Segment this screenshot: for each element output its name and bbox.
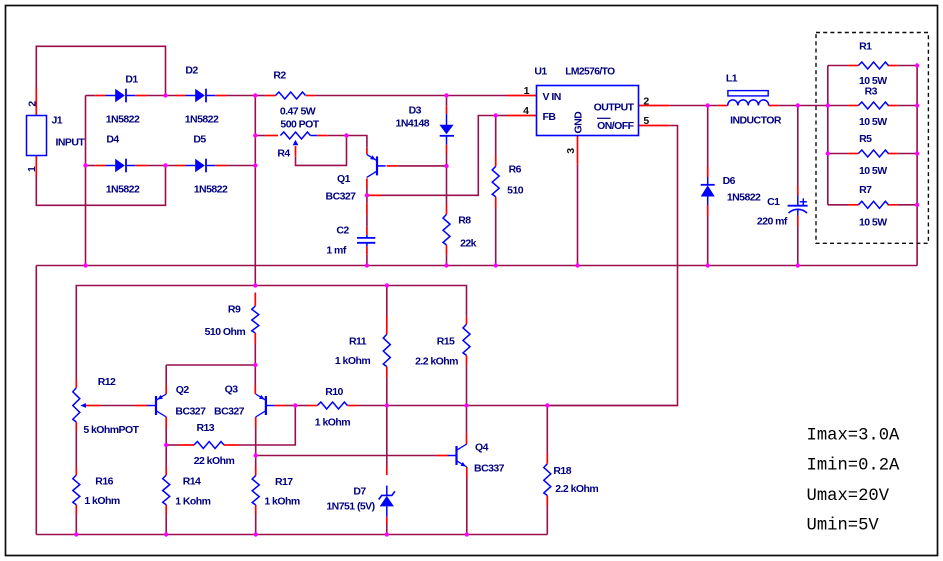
- svg-text:Umin=5V: Umin=5V: [807, 517, 880, 536]
- diode D6 1N5822: [707, 177, 709, 185]
- diode D2 1N5822: [186, 95, 196, 97]
- resistor R7 10 5W: [858, 201, 888, 208]
- transistor Q3 BC327: [265, 396, 267, 415]
- svg-text:1N5822: 1N5822: [106, 114, 140, 126]
- wire J1 pin2 top loop to bridge D1-D2 node: [36, 46, 165, 95]
- wire J1 pin1 bottom loop to bridge D4-D5 node: [36, 166, 165, 206]
- wire control rail R10-R11-R15-R18: [295, 405, 307, 407]
- wire D7 to bottom rail: [386, 517, 388, 525]
- wire R2 row to U1 VIN: [255, 95, 265, 97]
- svg-text:D7: D7: [353, 486, 366, 498]
- svg-text:1N751 (5V): 1N751 (5V): [326, 501, 374, 513]
- svg-text:0.47 5W: 0.47 5W: [280, 106, 316, 118]
- node R6 ground: [494, 263, 498, 267]
- capacitor C2 1 mf: [366, 235, 368, 238]
- transistor Q4 BC337: [455, 446, 457, 465]
- node R1 right: [915, 63, 919, 67]
- wire R1 row: [828, 65, 849, 67]
- wire R15 branch: [466, 317, 468, 325]
- svg-text:BC327: BC327: [214, 406, 245, 418]
- svg-text:OUTPUT: OUTPUT: [594, 102, 635, 114]
- node C1 ground: [796, 263, 800, 267]
- node R18 top: [545, 403, 549, 407]
- node L1 out / C1 top: [796, 103, 800, 107]
- wire D3 branch: [446, 96, 448, 107]
- svg-text:R13: R13: [196, 422, 214, 434]
- wire Q2-Q3 emitter rail: [166, 364, 255, 366]
- svg-text:D2: D2: [185, 65, 198, 77]
- resistor R11 1 kOhm: [383, 334, 390, 366]
- resistor R1 10 5W: [858, 62, 888, 69]
- node R11 top: [385, 283, 389, 287]
- svg-text:1 mf: 1 mf: [326, 245, 346, 257]
- resistor R6 510: [492, 166, 499, 196]
- svg-text:Umax=20V: Umax=20V: [807, 487, 890, 506]
- node ground at bridge left: [83, 263, 87, 267]
- resistor R2 0.47 5W: [276, 92, 306, 99]
- wire ground rail top section: [36, 265, 917, 267]
- wire R11 node to D7: [386, 406, 388, 467]
- U1 ON overline: [597, 117, 611, 119]
- svg-text:C1: C1: [767, 196, 780, 208]
- svg-text:D5: D5: [193, 134, 206, 146]
- node R10 / R11 bottom: [385, 403, 389, 407]
- wire R3 row: [828, 105, 849, 107]
- resistor R10 1 kOhm: [317, 402, 347, 409]
- node D3 anode: [444, 93, 448, 97]
- svg-text:1N5822: 1N5822: [106, 184, 140, 196]
- svg-text:D3: D3: [409, 105, 422, 117]
- load box dashed outline: [816, 33, 928, 244]
- svg-text:V IN: V IN: [543, 91, 561, 103]
- svg-text:D4: D4: [106, 134, 119, 146]
- wire R5 row: [828, 153, 849, 155]
- wire R18 branch: [546, 406, 548, 454]
- svg-text:10 5W: 10 5W: [859, 165, 887, 177]
- node R16 bottom: [74, 532, 78, 536]
- node R7 right: [915, 203, 919, 207]
- wire bridge right edge (DC+): [254, 96, 256, 286]
- svg-text:1 kOhm: 1 kOhm: [315, 417, 350, 429]
- svg-text:R10: R10: [325, 386, 343, 398]
- node Q2 collector / R13 / R14: [164, 443, 168, 447]
- svg-text:R9: R9: [228, 304, 241, 316]
- svg-text:R7: R7: [859, 184, 872, 196]
- wire left rail of feedback section: [35, 266, 37, 535]
- node R15 / Q4 collector: [464, 403, 468, 407]
- resistor R16 1 kOhm: [73, 475, 80, 505]
- node FB / R6: [494, 113, 498, 117]
- node load left rail R3: [826, 103, 830, 107]
- node D6 ground: [706, 263, 710, 267]
- resistor R9 510 Ohm: [252, 306, 259, 333]
- wire U1 ON/OFF pin 5 down to control rail: [639, 125, 670, 127]
- node R5 right: [915, 151, 919, 155]
- connector J1: [27, 116, 47, 156]
- svg-text:4: 4: [523, 105, 529, 117]
- svg-text:1N5822: 1N5822: [194, 184, 228, 196]
- svg-text:Q1: Q1: [337, 173, 351, 185]
- node D1-D2 junction: [163, 93, 167, 97]
- svg-text:2: 2: [643, 96, 649, 108]
- svg-text:1 kOhm: 1 kOhm: [335, 355, 370, 367]
- diode D5 1N5822: [186, 165, 196, 167]
- zener diode D7 1N751 (5V): [386, 486, 388, 496]
- svg-text:R3: R3: [865, 86, 878, 98]
- wire Q4 emitter to bottom rail: [466, 467, 468, 478]
- wire Q2 collector to R13/R14 node: [165, 417, 167, 428]
- wire Q1 base to D3 node: [387, 165, 398, 167]
- node R14 bottom: [164, 532, 168, 536]
- potentiometer R12 5 kOhmPOT: [73, 388, 80, 422]
- node R3 right: [915, 103, 919, 107]
- wire D6 branch: [707, 106, 709, 167]
- svg-text:220 mf: 220 mf: [757, 215, 788, 227]
- svg-text:R17: R17: [275, 476, 293, 488]
- svg-text:INPUT: INPUT: [56, 137, 86, 149]
- op-amp U1 LM2576/TO regulator box: [537, 86, 639, 136]
- wire lower top rail: [76, 286, 466, 379]
- svg-text:BC327: BC327: [326, 191, 357, 203]
- svg-text:C2: C2: [336, 225, 349, 237]
- wire C2 branch: [366, 195, 368, 203]
- svg-text:500 POT: 500 POT: [280, 119, 319, 131]
- node R9 bottom emitter rail: [253, 363, 257, 367]
- node bridge DC+ at R2: [253, 93, 257, 97]
- svg-text:10 5W: 10 5W: [859, 116, 887, 128]
- svg-text:R5: R5: [859, 133, 872, 145]
- wire Q1 collector node to FB: [367, 116, 496, 196]
- wire U1 OUTPUT pin 2 to L1: [639, 105, 670, 107]
- wire R11 branch: [386, 286, 388, 316]
- wire Q3 base node: [274, 405, 285, 407]
- node Q3 collector / Q4 base rail: [254, 453, 258, 457]
- svg-text:R11: R11: [349, 336, 367, 348]
- diode D1 1N5822: [106, 95, 116, 97]
- svg-text:R4: R4: [277, 148, 290, 160]
- svg-text:Q2: Q2: [176, 384, 190, 396]
- svg-text:1 kOhm: 1 kOhm: [264, 496, 299, 508]
- diode D4 1N5822: [106, 165, 116, 167]
- node lower rail feed R9 top: [253, 283, 257, 287]
- wire load box right rail: [916, 66, 918, 266]
- node GND pin ground: [575, 263, 579, 267]
- capacitor C1 220 mf polarized: [797, 196, 799, 206]
- svg-text:510: 510: [507, 185, 524, 197]
- svg-text:Imax=3.0A: Imax=3.0A: [807, 426, 901, 445]
- svg-text:22k: 22k: [460, 238, 477, 250]
- svg-text:5 kOhmPOT: 5 kOhmPOT: [83, 424, 139, 436]
- node load left rail R5: [826, 151, 830, 155]
- wire R9 branch: [254, 293, 256, 296]
- svg-text:L1: L1: [726, 73, 738, 85]
- svg-text:2.2 kOhm: 2.2 kOhm: [555, 483, 598, 495]
- svg-text:R16: R16: [95, 476, 113, 488]
- svg-text:1N5822: 1N5822: [185, 114, 219, 126]
- svg-text:Q3: Q3: [225, 384, 239, 396]
- svg-text:D1: D1: [125, 74, 138, 86]
- wire R4 wiper loop: [295, 146, 297, 157]
- wire L1 to C1 and load: [769, 105, 779, 107]
- svg-text:D6: D6: [723, 175, 736, 187]
- svg-text:U1: U1: [534, 66, 547, 78]
- wire R14 branch: [165, 445, 167, 467]
- wire R12 to R16: [75, 422, 77, 431]
- svg-text:R2: R2: [273, 70, 286, 82]
- svg-text:R8: R8: [458, 215, 471, 227]
- resistor R8 22k: [443, 214, 450, 245]
- svg-text:GND: GND: [573, 111, 585, 134]
- svg-text:R14: R14: [183, 476, 201, 488]
- resistor R14 1 Kohm: [163, 475, 170, 505]
- wire D1 row: [86, 95, 96, 97]
- inductor L1: [728, 91, 768, 96]
- wire R8 branch: [446, 166, 448, 205]
- wire Q3 collector to Q4 base rail: [255, 417, 257, 428]
- node C2 ground: [365, 263, 369, 267]
- wire U1 GND pin 3: [577, 136, 579, 165]
- svg-text:R18: R18: [553, 465, 571, 477]
- svg-text:Q4: Q4: [475, 442, 489, 454]
- svg-text:1: 1: [524, 85, 530, 97]
- wire R13 row: [166, 444, 179, 446]
- svg-text:510 Ohm: 510 Ohm: [205, 326, 246, 338]
- wire Q4 collector: [466, 406, 468, 434]
- wire bridge left edge (DC-): [85, 96, 87, 266]
- wire R7 row: [828, 204, 849, 206]
- svg-text:INDUCTOR: INDUCTOR: [730, 115, 782, 127]
- svg-text:J1: J1: [52, 115, 63, 127]
- wire C1 branch: [797, 106, 799, 186]
- node Q3 base / R13 / R10: [293, 403, 297, 407]
- svg-text:FB: FB: [543, 111, 557, 123]
- wire Q1 collector to node: [366, 178, 368, 188]
- svg-text:R15: R15: [437, 336, 455, 348]
- svg-text:BC327: BC327: [175, 406, 206, 418]
- svg-text:22 kOhm: 22 kOhm: [194, 455, 235, 467]
- node OUTPUT / D6 top: [706, 103, 710, 107]
- node bridge DC- at left edge: [83, 163, 87, 167]
- transistor Q2 BC327: [155, 396, 157, 415]
- resistor R17 1 kOhm: [252, 476, 259, 505]
- wire D4 row: [86, 165, 96, 167]
- resistor R3 10 5W: [858, 102, 888, 109]
- svg-text:BC337: BC337: [474, 463, 505, 475]
- resistor R13 22 kOhm: [194, 442, 224, 449]
- svg-text:2: 2: [27, 101, 39, 107]
- node R17 bottom: [254, 532, 258, 536]
- resistor R5 10 5W: [858, 150, 888, 157]
- svg-text:2.2 kOhm: 2.2 kOhm: [415, 356, 458, 368]
- svg-text:R6: R6: [509, 164, 522, 176]
- wire load box left rail: [827, 66, 829, 205]
- wire bottom rail: [36, 534, 547, 536]
- wire R4 row: [255, 135, 265, 137]
- node D7 bottom: [385, 532, 389, 536]
- node D4-D5 junction: [163, 163, 167, 167]
- svg-text:R12: R12: [98, 376, 116, 388]
- wire R17 branch: [255, 456, 257, 467]
- node bridge R4 tap: [253, 133, 257, 137]
- svg-text:10 5W: 10 5W: [859, 217, 887, 229]
- potentiometer R4 500 POT: [280, 132, 310, 139]
- svg-text:R1: R1: [859, 41, 872, 53]
- svg-text:ON/OFF: ON/OFF: [597, 120, 634, 132]
- wire R4 node to Q1 emitter: [347, 136, 367, 148]
- node Q1 collector / C2 / FB rail: [365, 193, 369, 197]
- resistor R18 2.2 kOhm: [544, 464, 551, 496]
- node R4 wiper: [344, 133, 348, 137]
- svg-text:LM2576/TO: LM2576/TO: [565, 67, 615, 78]
- wire R6 branch: [495, 116, 497, 156]
- svg-text:1N5822: 1N5822: [727, 191, 761, 203]
- svg-text:5: 5: [643, 115, 649, 127]
- node bridge D5 cathode: [253, 163, 257, 167]
- node Q4 emitter bottom: [465, 532, 469, 536]
- svg-text:1N4148: 1N4148: [396, 118, 430, 130]
- transistor Q1 BC327: [376, 156, 378, 175]
- svg-text:3: 3: [565, 148, 577, 154]
- diode D3 1N4148: [446, 114, 448, 125]
- svg-text:Imin=0.2A: Imin=0.2A: [807, 457, 901, 476]
- svg-text:1 Kohm: 1 Kohm: [175, 496, 210, 508]
- svg-text:1: 1: [26, 166, 38, 172]
- node R8 ground: [444, 263, 448, 267]
- svg-text:1 kOhm: 1 kOhm: [84, 495, 119, 507]
- wire R12 wiper to Q2 base: [85, 405, 101, 407]
- node Q1 base / D3 cathode / R8: [444, 164, 448, 168]
- resistor R15 2.2 kOhm: [463, 324, 470, 355]
